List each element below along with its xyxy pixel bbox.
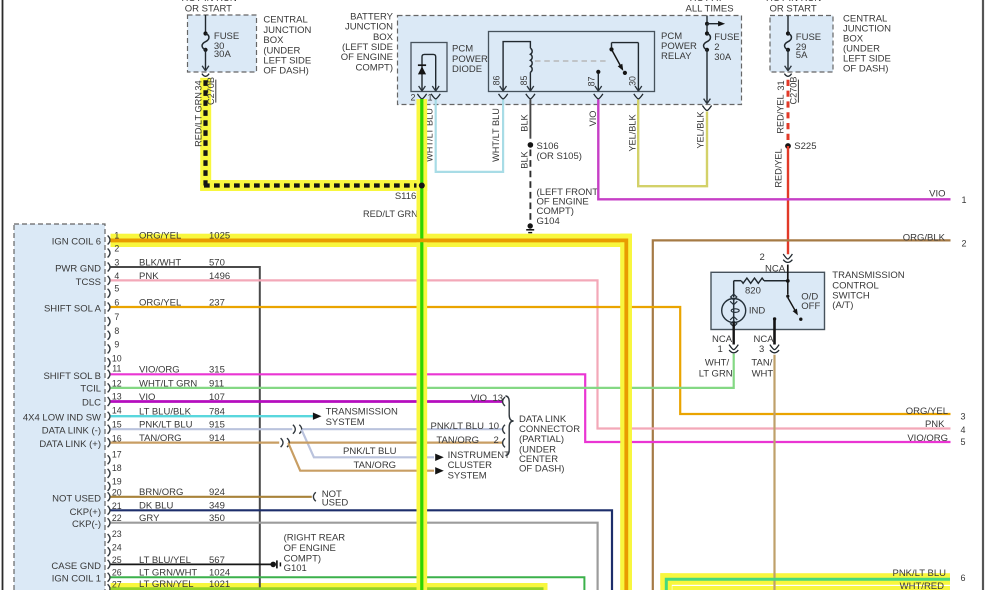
label 34 (pin): [193, 80, 203, 90]
svg-text:ORG/YEL: ORG/YEL: [906, 406, 948, 417]
svg-text:YEL/BLK: YEL/BLK: [628, 113, 638, 151]
svg-text:G101: G101: [284, 563, 307, 574]
svg-text:10: 10: [489, 421, 500, 432]
wire highlight fuse30 RED/LT GRN dashed run: [200, 78, 427, 191]
diode D1 symbol: [418, 65, 426, 74]
wire GRY circuit 350: [111, 523, 598, 590]
fuse F2 feed arrow: [705, 16, 725, 27]
wire LT BLU/BLK circuit 784: [111, 415, 314, 417]
svg-text:IND: IND: [749, 306, 766, 317]
svg-text:RED/LT GRN: RED/LT GRN: [363, 209, 418, 219]
connector pair on TAN/ORG: [281, 438, 290, 447]
svg-text:OR START: OR START: [185, 4, 232, 15]
label TAN/ORG 914: [139, 433, 225, 444]
svg-text:30A: 30A: [214, 49, 232, 60]
left page border: [2, 0, 4, 590]
svg-text:(PARTIAL): (PARTIAL): [519, 434, 564, 445]
TCS box outline: [711, 272, 825, 329]
svg-text:BLK: BLK: [519, 113, 529, 131]
svg-text:30: 30: [628, 76, 638, 86]
wire highlight ORG/YEL vertical overdraw: [620, 234, 632, 590]
svg-text:PNK/LT BLU: PNK/LT BLU: [892, 568, 946, 579]
splice S116: [419, 183, 425, 189]
label VIO/ORG right edge: [907, 433, 948, 444]
label pin 2 (diode): [411, 93, 416, 103]
svg-text:3: 3: [759, 344, 764, 355]
label HOT IN RUN (fuse29): [766, 0, 821, 4]
label TRANSMISSION CONTROL SWITCH: [832, 270, 904, 311]
ground G104: [526, 223, 534, 232]
label PCM POWER RELAY: [661, 31, 697, 62]
wire DK BLU circuit 349: [111, 510, 613, 590]
svg-text:WHT/LT BLU: WHT/LT BLU: [491, 108, 501, 162]
DLC pin PNK/LT BLU arc: [503, 425, 505, 434]
label O/D OFF: [801, 291, 820, 312]
wire highlight ORG/YEL circuit 1025: [111, 234, 632, 590]
svg-text:VIO: VIO: [929, 189, 945, 200]
wire highlight PNK/LT BLU right bottom: [660, 573, 950, 590]
svg-text:G104: G104: [537, 216, 560, 227]
svg-text:DATA LINK (-): DATA LINK (-): [42, 426, 101, 437]
svg-text:RED/LT GRN: RED/LT GRN: [194, 92, 204, 147]
label pin 85: [519, 76, 529, 86]
svg-text:3: 3: [961, 411, 966, 421]
DLC pin TAN/ORG arc: [503, 438, 505, 447]
svg-text:ORG/BLK: ORG/BLK: [903, 232, 946, 243]
label pin 87: [587, 77, 597, 87]
arrow to instrument cluster 2: [435, 467, 444, 474]
connector C270B cup (fuse29): [784, 74, 791, 77]
svg-text:DLC: DLC: [82, 397, 101, 408]
svg-text:WHT/: WHT/: [705, 357, 730, 368]
svg-text:BLK: BLK: [519, 150, 529, 168]
svg-text:5A: 5A: [796, 50, 808, 61]
TCS junction node: [786, 279, 790, 283]
svg-text:PWR GND: PWR GND: [55, 264, 101, 275]
svg-text:2: 2: [962, 239, 967, 249]
wire ORG/YEL circuit 1025 overdraw: [111, 240, 627, 590]
svg-text:OFF: OFF: [801, 301, 820, 312]
pin 2 chevron: [417, 94, 426, 99]
wire PNK circuit 1496: [111, 280, 951, 428]
svg-text:11: 11: [112, 364, 121, 374]
wire RED/YEL dashed segment: [787, 80, 790, 143]
fuse F30 symbol: [202, 15, 209, 71]
wire VIO from relay 87: [598, 100, 950, 200]
svg-text:S225: S225: [794, 141, 816, 152]
label PNK/LT BLU 915: [139, 420, 225, 431]
label RED/YEL upper: [775, 94, 785, 133]
wire BLK/WHT circuit 570: [111, 267, 260, 590]
label S116: [395, 191, 416, 202]
svg-text:OF DASH): OF DASH): [519, 464, 564, 475]
wire highlight RED/LT GRN vertical: [417, 99, 428, 590]
svg-text:PNK: PNK: [925, 419, 945, 430]
label RED/LT GRN horizontal: [363, 209, 418, 219]
label PCM POWER DIODE: [452, 44, 488, 75]
fuse F29 symbol: [785, 16, 792, 71]
svg-text:5: 5: [961, 437, 966, 447]
label 31 (pin): [776, 80, 786, 90]
battery junction box outline: [398, 16, 742, 105]
label VIO 107: [139, 392, 225, 403]
label PNK/LT BLU 10: [430, 421, 499, 432]
diode box outline: [411, 43, 447, 92]
label NOT USED: [322, 489, 349, 509]
label LT GRN/WHT 1024: [139, 568, 230, 579]
label GRY 350: [139, 513, 225, 524]
svg-text:ALL TIMES: ALL TIMES: [686, 4, 734, 15]
label 2 (NCA2): [760, 252, 765, 263]
svg-text:8: 8: [114, 326, 119, 336]
relay box outline: [489, 32, 655, 92]
connector pair on PNK/LT BLU: [293, 425, 302, 434]
label TAN/ORG 2: [436, 435, 498, 446]
svg-text:SYSTEM: SYSTEM: [448, 471, 487, 482]
svg-text:SYSTEM: SYSTEM: [326, 417, 365, 428]
relay coil winding: [500, 42, 534, 91]
label RED/YEL lower: [774, 148, 784, 187]
label VIO 13: [471, 393, 503, 404]
wire PNK/LT BLU branch to cluster: [302, 430, 435, 458]
wire LT GRN/YEL circuit 1021: [111, 589, 543, 590]
svg-text:2: 2: [494, 435, 499, 446]
svg-text:31: 31: [776, 80, 786, 90]
label ALL TIMES (fuse2): [686, 4, 734, 15]
svg-text:13: 13: [112, 391, 122, 401]
label RIGHT REAR OF ENGINE COMPT G101: [284, 533, 346, 574]
wire TAN/ORG branch to cluster: [288, 443, 434, 471]
svg-text:9: 9: [114, 340, 119, 350]
svg-text:34: 34: [193, 80, 203, 90]
svg-text:(OR S105): (OR S105): [537, 151, 582, 162]
label LT BLU/BLK 784: [139, 407, 225, 418]
svg-text:10: 10: [112, 353, 122, 363]
arrow to instrument cluster 1: [435, 454, 444, 461]
label pin 30: [628, 76, 638, 86]
svg-text:VIO/ORG: VIO/ORG: [907, 433, 948, 444]
label NCA (pin2): [765, 264, 786, 275]
wire highlight RED/LT GRN vertical overdraw: [417, 99, 428, 590]
svg-text:USED: USED: [322, 498, 349, 509]
pin 1 chevron: [431, 94, 440, 99]
svg-text:OF DASH): OF DASH): [263, 66, 308, 77]
svg-text:CKP(+): CKP(+): [70, 507, 101, 518]
label TAN/WHT (NCA3 wire): [751, 357, 773, 379]
label WHT/LT GRN 911: [139, 378, 224, 389]
connector C270B cup (fuse30): [202, 74, 209, 77]
svg-text:NOT USED: NOT USED: [52, 493, 101, 504]
label 1 right edge: [962, 195, 967, 205]
svg-text:IGN COIL 1: IGN COIL 1: [52, 574, 101, 585]
svg-text:TCSS: TCSS: [76, 277, 101, 288]
svg-text:WHT: WHT: [752, 368, 774, 379]
label TRANSMISSION SYSTEM: [326, 406, 398, 428]
label FUSE 2 30A: [714, 32, 739, 63]
relay switch: [595, 43, 642, 91]
svg-text:1: 1: [962, 195, 967, 205]
label PNK right edge: [925, 419, 945, 430]
svg-text:VIO: VIO: [471, 393, 487, 404]
label OR START (fuse30): [185, 4, 232, 15]
label LT GRN/YEL 1021: [139, 579, 230, 590]
label IND: [749, 306, 766, 317]
label NCA (pin3): [754, 334, 775, 345]
TCS switch O/D: [773, 282, 803, 321]
label BLK/WHT 570: [139, 257, 225, 268]
svg-text:6: 6: [961, 573, 966, 583]
PCM connector pin arcs 1-27: [108, 236, 110, 590]
svg-text:14: 14: [112, 406, 122, 416]
svg-text:13: 13: [493, 393, 504, 404]
label PNK/LT BLU branch: [343, 446, 397, 457]
label BRN/ORG 924: [139, 487, 225, 498]
connector NOT USED arc: [313, 492, 315, 501]
svg-text:17: 17: [112, 450, 122, 460]
svg-text:18: 18: [112, 463, 122, 473]
splice S106: [528, 142, 534, 148]
svg-text:85: 85: [519, 76, 529, 86]
svg-text:TAN/: TAN/: [751, 357, 772, 368]
svg-text:24: 24: [112, 543, 122, 553]
wire ORG/YEL circuit 237: [111, 307, 951, 414]
label HOT AT (fuse2): [690, 0, 724, 4]
DLC pin VIO arc: [503, 397, 505, 406]
label DATA LINK CONNECTOR: [519, 414, 580, 475]
fuse F2 symbol: [704, 24, 711, 104]
label OR START (fuse29): [770, 4, 817, 15]
svg-text:7: 7: [114, 312, 119, 322]
wire RED/LT GRN vertical overdraw: [420, 99, 423, 590]
wire highlight LT GRN/YEL circuit 1021: [111, 583, 548, 590]
svg-text:2: 2: [114, 244, 119, 254]
wire RED/LT GRN vertical: [420, 99, 423, 590]
wire WHT/LT BLU U-link: [436, 100, 503, 172]
pin 86 chevron: [499, 94, 508, 99]
wire PNK/LT BLU bottom right: [666, 579, 950, 590]
svg-text:SHIFT SOL B: SHIFT SOL B: [43, 371, 101, 382]
label CENTRAL JUNCTION BOX (fuse29): [843, 14, 891, 75]
svg-text:DATA LINK (+): DATA LINK (+): [39, 439, 101, 450]
svg-text:(A/T): (A/T): [832, 300, 853, 311]
label LT BLU/YEL 567: [139, 555, 225, 566]
wire VIO/ORG circuit 315: [111, 374, 951, 442]
indicator lamp IND: [722, 294, 746, 327]
splice S225: [785, 143, 791, 149]
label 1 (NCA1): [718, 344, 723, 355]
pin 30 chevron: [634, 94, 643, 99]
svg-text:4X4 LOW IND SW: 4X4 LOW IND SW: [23, 413, 101, 424]
svg-text:2: 2: [760, 252, 765, 263]
TCS lamp stub to NCA1: [733, 322, 735, 344]
label PNK/LT BLU right edge: [892, 568, 946, 579]
pin 87 chevron: [594, 94, 603, 99]
label WHT/RED right edge: [900, 581, 944, 590]
svg-text:5: 5: [114, 284, 119, 294]
label INSTRUMENT CLUSTER SYSTEM: [448, 450, 510, 482]
wire highlight WHT/RED right bottom: [672, 586, 950, 590]
svg-text:OF ENGINE: OF ENGINE: [284, 543, 336, 554]
right page border: [982, 0, 984, 590]
svg-text:CLUSTER: CLUSTER: [448, 460, 492, 471]
arrow to transmission system: [313, 413, 322, 420]
label WHT/LT GRN (NCA1 wire): [699, 357, 733, 379]
central junction box (fuse 30) outline: [188, 15, 257, 72]
label YEL/BLK left: [628, 113, 638, 151]
label BLK lower: [519, 150, 529, 168]
wire ORG/BLK: [653, 240, 951, 590]
label VIO vertical: [588, 111, 598, 127]
svg-text:1: 1: [718, 344, 723, 355]
label YEL/BLK right: [695, 110, 705, 148]
wire RED/YEL solid to switch: [787, 146, 789, 254]
wire LT GRN/WHT circuit 1024: [111, 577, 585, 590]
label 4 right edge: [961, 425, 966, 435]
label VIO/ORG 315: [139, 365, 225, 376]
label BLK upper: [519, 113, 529, 131]
label DK BLU 349: [139, 501, 225, 512]
fuse F2 chevron: [702, 106, 711, 111]
label WHT/LT BLU right: [491, 108, 501, 162]
label 6 right edge: [961, 573, 966, 583]
label CENTRAL JUNCTION BOX (fuse30): [263, 15, 311, 77]
wire BLK solid from relay 85: [529, 100, 531, 139]
connector NCA pin 3: [770, 345, 779, 353]
label TAN/ORG branch: [354, 460, 397, 471]
wire TAN/WHT from NCA3: [773, 355, 775, 590]
svg-text:87: 87: [587, 77, 597, 87]
svg-text:COMPT): COMPT): [356, 62, 393, 73]
label FUSE 29 5A: [796, 32, 821, 61]
svg-text:CASE GND: CASE GND: [51, 561, 101, 572]
svg-text:TRANSMISSION: TRANSMISSION: [326, 406, 398, 417]
wire BLK dashed to G104: [529, 150, 531, 222]
label ORG/YEL 1025: [139, 230, 230, 241]
pin 85 chevron: [526, 94, 535, 99]
svg-text:TCIL: TCIL: [80, 384, 101, 395]
svg-text:INSTRUMENT: INSTRUMENT: [448, 450, 510, 461]
svg-text:(RIGHT REAR: (RIGHT REAR: [284, 533, 346, 544]
label 5 right edge: [961, 437, 966, 447]
svg-text:IGN COIL 6: IGN COIL 6: [52, 237, 101, 248]
label FUSE 30 30A: [214, 31, 239, 60]
svg-text:RELAY: RELAY: [661, 51, 692, 62]
label S106 (OR S105): [537, 141, 582, 162]
label C270B (fuse29): [789, 76, 799, 104]
label HOT IN RUN (fuse30): [182, 0, 237, 4]
svg-text:25: 25: [112, 555, 122, 565]
relay actuator dashed link: [535, 60, 608, 62]
label pin 1 (diode): [428, 93, 433, 103]
label NCA (pin1): [712, 334, 733, 345]
wire TAN/ORG circuit 914: [111, 442, 503, 444]
label RED/LT GRN vertical (fuse30 wire): [194, 92, 204, 147]
ground G101: [270, 560, 280, 568]
svg-text:WHT/RED: WHT/RED: [900, 581, 944, 590]
label WHT/LT BLU left: [424, 108, 434, 162]
svg-text:YEL/BLK: YEL/BLK: [695, 110, 705, 148]
svg-text:SHIFT SOL A: SHIFT SOL A: [44, 304, 102, 315]
label 2 right edge: [962, 239, 967, 249]
wire ORG/YEL circuit 1025: [111, 240, 627, 590]
TCS contact stub to NCA3: [773, 319, 776, 345]
svg-text:OR START: OR START: [770, 4, 817, 15]
svg-text:S116: S116: [395, 191, 416, 202]
label pin 86: [492, 76, 502, 86]
svg-text:86: 86: [492, 76, 502, 86]
wire LT BLU/YEL circuit 567: [111, 563, 271, 565]
PCM pin function labels: [23, 237, 102, 585]
wire WHT/LT GRN circuit 911: [111, 354, 734, 388]
label VIO right edge: [929, 189, 945, 200]
PCM connector box outline: [14, 224, 105, 590]
svg-text:19: 19: [112, 477, 122, 487]
connector NCA pin 1: [729, 345, 738, 353]
svg-text:C270B: C270B: [789, 76, 799, 104]
label 820: [745, 285, 761, 296]
label ORG/BLK right edge: [903, 232, 946, 243]
wire YEL/BLK U-link: [638, 100, 707, 187]
wire BRN/ORG circuit 924: [111, 496, 312, 498]
label LEFT FRONT OF ENGINE COMPT G104: [537, 187, 599, 227]
label ORG/YEL right edge: [906, 406, 948, 417]
wire RED/LT GRN dashed from fuse30 to S116: [204, 80, 422, 185]
resistor 820 ohm: [734, 278, 788, 297]
svg-text:2: 2: [411, 93, 416, 103]
svg-text:TAN/ORG: TAN/ORG: [436, 435, 479, 446]
svg-text:TAN/ORG: TAN/ORG: [354, 460, 397, 471]
label C270B (fuse30): [206, 77, 216, 105]
label ORG/YEL 237: [139, 297, 225, 308]
PCM power diode internal wire: [419, 54, 440, 91]
splice S116 overdraw: [419, 183, 425, 189]
svg-text:4: 4: [961, 425, 966, 435]
svg-text:OF DASH): OF DASH): [843, 64, 888, 75]
svg-text:PNK/LT BLU: PNK/LT BLU: [343, 446, 397, 457]
connector NCA pin 2: [783, 254, 792, 262]
svg-text:30A: 30A: [714, 52, 732, 63]
svg-text:820: 820: [745, 285, 761, 296]
PCM pin numbers: [112, 231, 122, 590]
TCS stub from NCA2: [787, 265, 789, 281]
svg-text:LT GRN: LT GRN: [699, 368, 733, 379]
label 3 right edge: [961, 411, 966, 421]
wire PNK/LT BLU circuit 915: [111, 428, 503, 430]
svg-text:CKP(-): CKP(-): [72, 519, 101, 530]
central junction box (fuse 29) outline: [770, 16, 833, 73]
label S225: [794, 141, 816, 152]
label PNK 1496: [139, 271, 230, 282]
svg-text:RED/YEL: RED/YEL: [774, 148, 784, 187]
svg-text:DIODE: DIODE: [452, 64, 482, 75]
svg-text:23: 23: [112, 529, 122, 539]
svg-text:RED/YEL: RED/YEL: [775, 94, 785, 133]
wire VIO circuit 107: [111, 400, 503, 403]
label 3 (NCA3): [759, 344, 764, 355]
svg-text:PNK/LT BLU: PNK/LT BLU: [430, 421, 484, 432]
label BATTERY JUNCTION BOX: [341, 11, 394, 73]
svg-text:VIO: VIO: [588, 111, 598, 127]
DLC brace: [505, 396, 513, 456]
